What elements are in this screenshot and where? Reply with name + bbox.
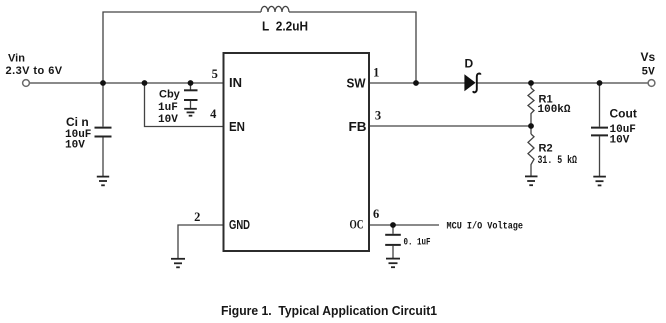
svg-text:IN: IN bbox=[229, 75, 242, 90]
svg-text:R2: R2 bbox=[539, 143, 553, 155]
svg-text:Figure 1. Typical Application: Figure 1. Typical Application Circuit1 bbox=[221, 304, 437, 318]
svg-text:FB: FB bbox=[349, 119, 367, 134]
svg-text:SW: SW bbox=[347, 76, 367, 91]
svg-text:Cby: Cby bbox=[159, 89, 181, 101]
svg-text:L 2.2uH: L 2.2uH bbox=[262, 20, 308, 34]
svg-text:10V: 10V bbox=[610, 135, 630, 147]
svg-text:5V: 5V bbox=[642, 67, 656, 79]
svg-text:GND: GND bbox=[229, 217, 250, 232]
svg-text:100kΩ: 100kΩ bbox=[538, 104, 571, 116]
svg-text:0. 1uF: 0. 1uF bbox=[404, 238, 431, 249]
svg-text:Ci n: Ci n bbox=[66, 115, 89, 129]
svg-text:EN: EN bbox=[229, 119, 245, 134]
svg-text:MCU I/O Voltage: MCU I/O Voltage bbox=[447, 221, 524, 233]
svg-text:1uF: 1uF bbox=[158, 102, 178, 114]
svg-text:2: 2 bbox=[194, 210, 200, 224]
svg-text:D: D bbox=[465, 57, 474, 71]
svg-text:OC: OC bbox=[350, 217, 364, 232]
svg-text:4: 4 bbox=[210, 107, 217, 121]
svg-text:10V: 10V bbox=[65, 140, 85, 152]
svg-text:Cout: Cout bbox=[610, 107, 637, 121]
svg-text:Vs: Vs bbox=[641, 50, 656, 64]
svg-text:6: 6 bbox=[373, 207, 379, 221]
svg-text:1: 1 bbox=[373, 65, 379, 79]
svg-text:31. 5 kΩ: 31. 5 kΩ bbox=[538, 155, 578, 167]
svg-text:2.3V to 6V: 2.3V to 6V bbox=[6, 65, 63, 77]
svg-text:Vin: Vin bbox=[8, 53, 25, 65]
svg-text:3: 3 bbox=[375, 109, 381, 123]
svg-text:5: 5 bbox=[212, 67, 218, 81]
svg-text:10V: 10V bbox=[158, 114, 178, 126]
